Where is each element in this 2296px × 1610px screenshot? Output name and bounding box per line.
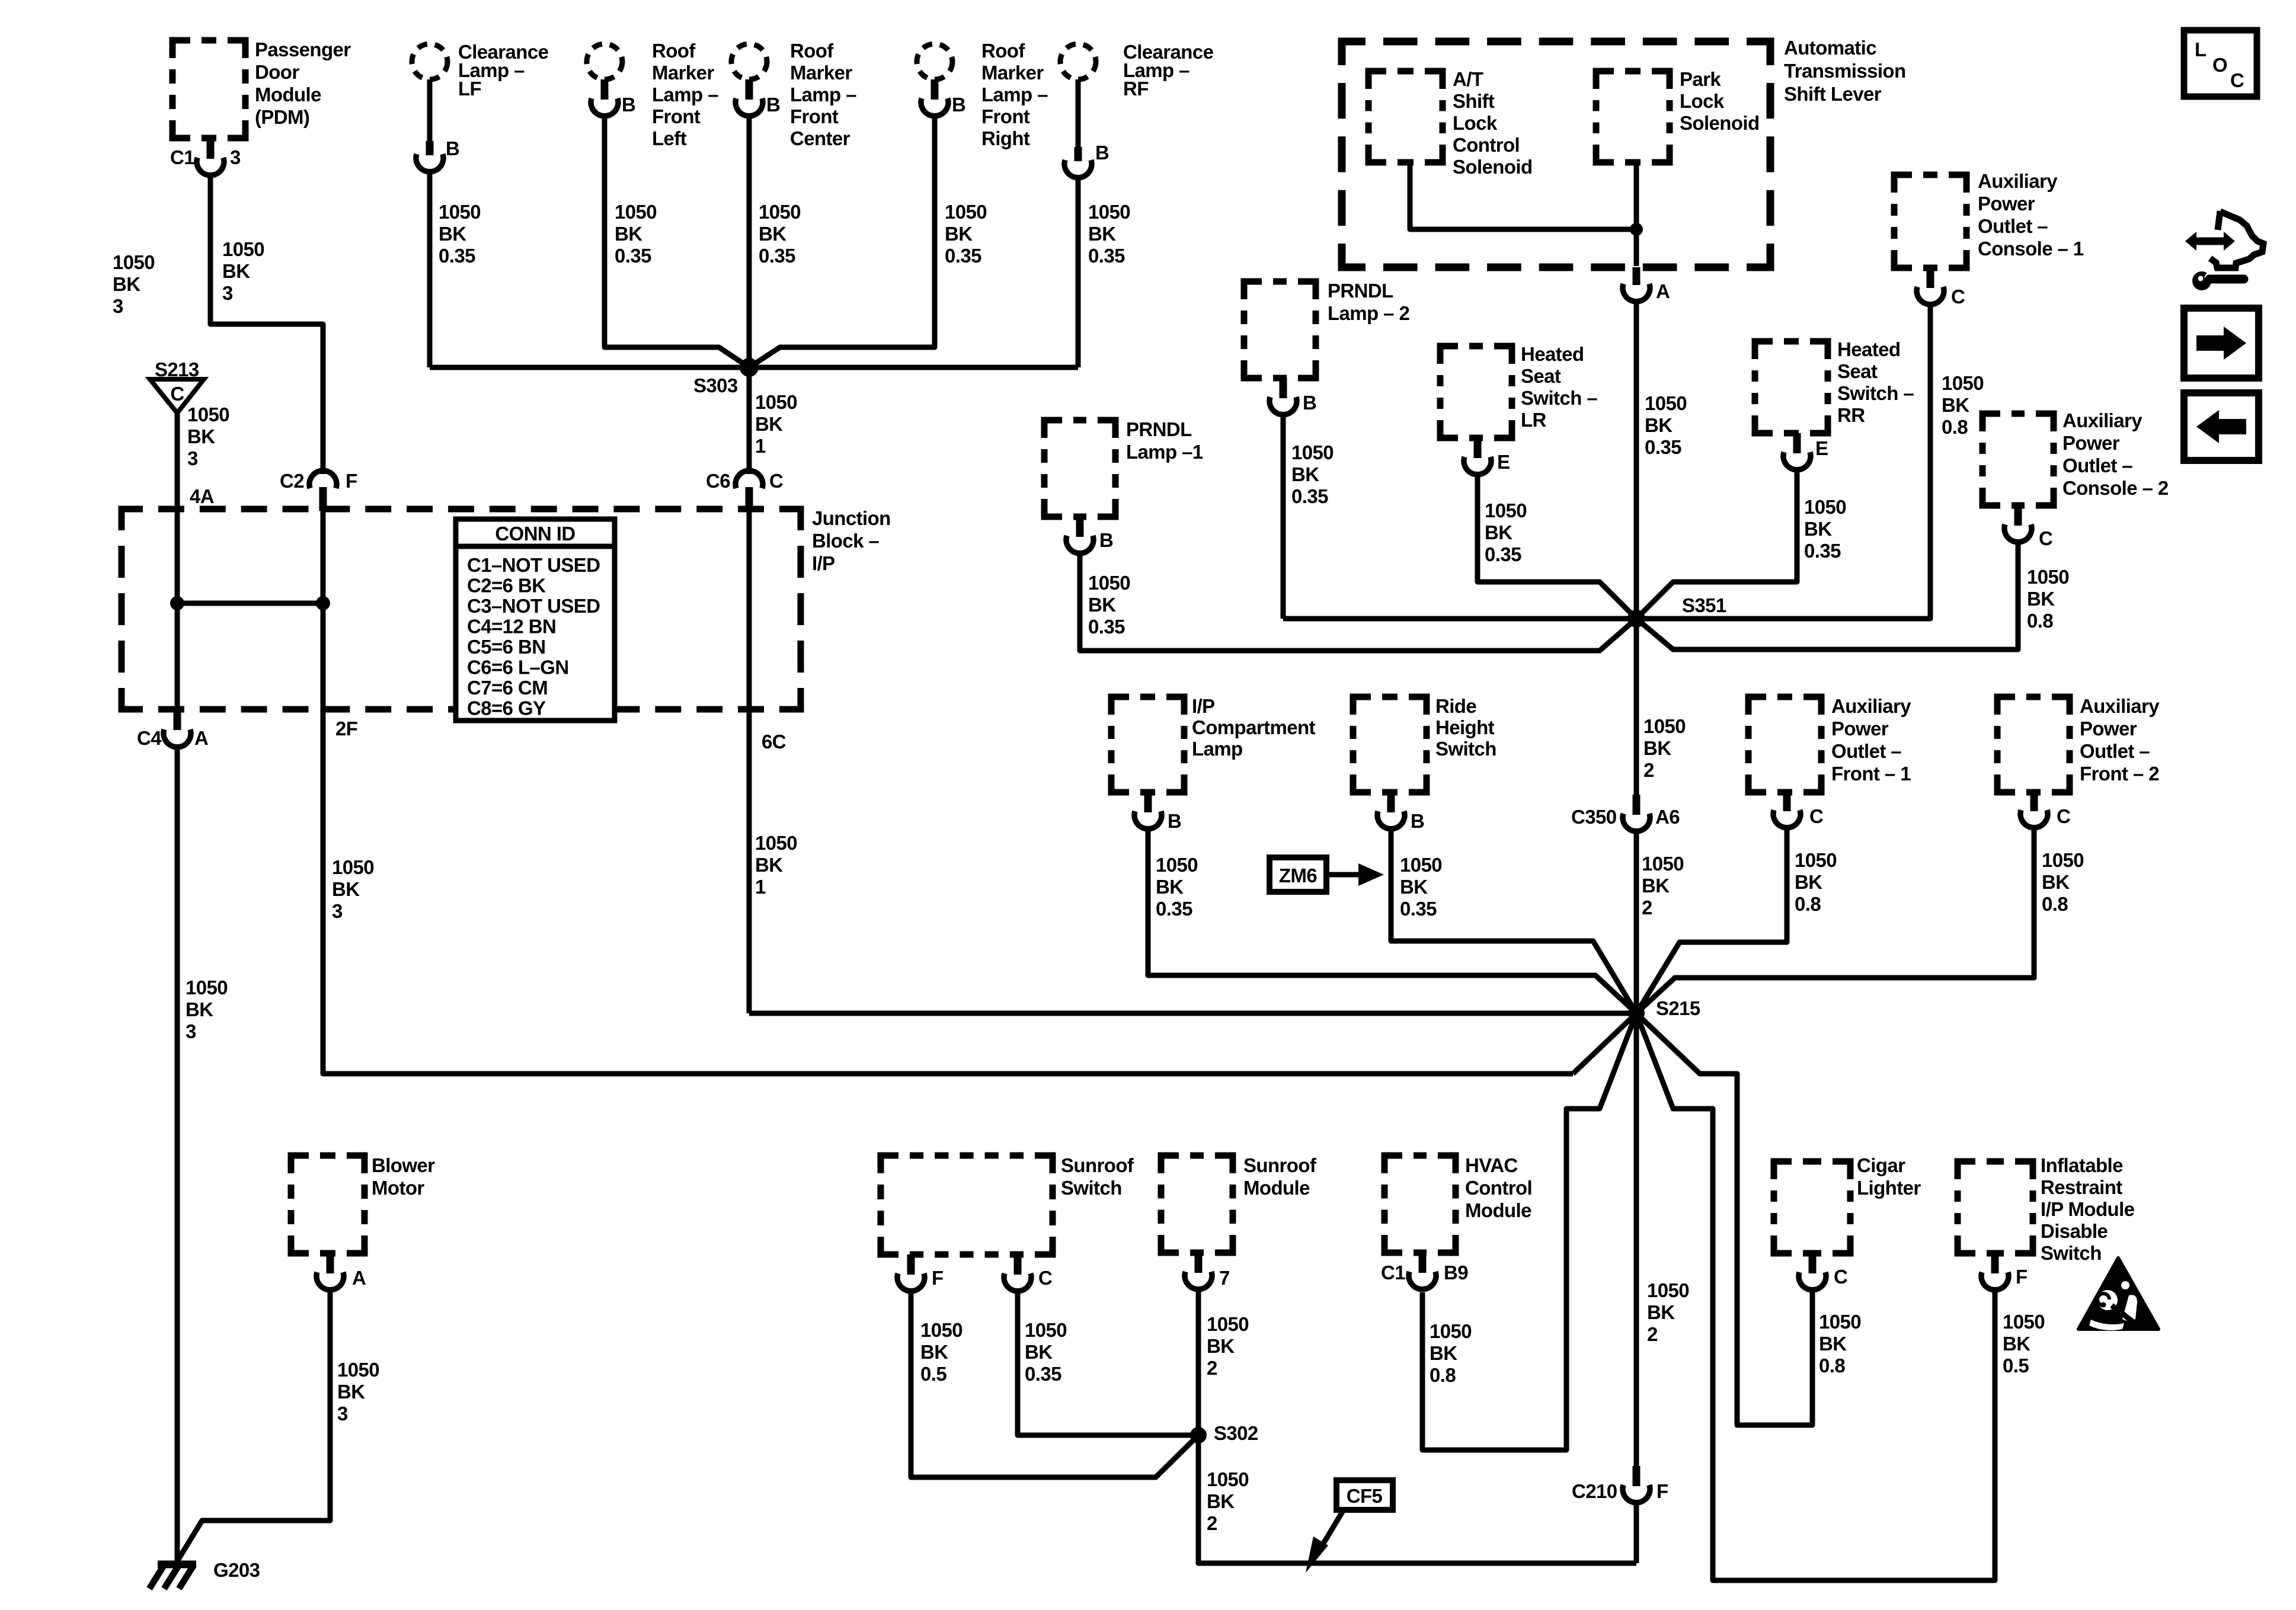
airbag warning triangle icon — [2078, 1258, 2159, 1329]
wire: sunroof switch C to S302 — [1018, 1290, 1198, 1435]
connector B of Roof Marker Front Center — [746, 79, 753, 100]
svg-text:S351: S351 — [1682, 594, 1726, 616]
svg-text:F: F — [346, 470, 357, 492]
connector C1 pin 3 of PDM — [207, 138, 215, 159]
wire: shift lever A down to S351 — [1634, 300, 1639, 619]
connector B of Roof Marker Front Left — [601, 79, 609, 100]
svg-text:AuxiliaryPowerOutlet –Front –: AuxiliaryPowerOutlet –Front – 1 — [1831, 695, 1911, 785]
wire: I/P compartment lamp to S215 — [1148, 828, 1636, 1013]
component box: Sunroof Switch — [881, 1156, 1053, 1254]
wire: S303 bus — [430, 365, 1078, 370]
splice S302 dot — [1190, 1427, 1207, 1443]
svg-text:B: B — [446, 137, 459, 159]
wire: park lock solenoid down — [1634, 162, 1639, 266]
wire: S215 to HVAC branch — [1422, 1013, 1636, 1450]
svg-text:A6: A6 — [1655, 806, 1680, 828]
wire: A/T shift lock solenoid to junction — [1410, 162, 1636, 229]
wire: sunroof switch F to S302 — [911, 1290, 1198, 1477]
component: Clearance Lamp - LF (dashed circle) — [412, 44, 447, 79]
svg-text:4A: 4A — [190, 485, 214, 507]
connector C2 pin F on junction block — [309, 470, 337, 488]
svg-text:SunroofModule: SunroofModule — [1243, 1154, 1317, 1199]
svg-text:C210: C210 — [1572, 1480, 1617, 1502]
connector C of Aux Power Outlet Front 1 — [1783, 792, 1791, 811]
wire: LF connector down to S303 bus — [427, 171, 433, 367]
svg-text:C: C — [170, 383, 184, 405]
svg-text:C: C — [1834, 1266, 1847, 1288]
connector C of Aux Power Outlet Console 2 — [2014, 505, 2022, 526]
component box: Sunroof Module — [1161, 1156, 1233, 1253]
component box: Auxiliary Power Outlet - Console - 1 — [1894, 175, 1966, 268]
connector 7 of Sunroof Module — [1195, 1253, 1203, 1273]
svg-text:B: B — [1168, 810, 1181, 832]
svg-text:B: B — [1411, 810, 1424, 832]
icon: left arrow box — [2184, 393, 2259, 460]
svg-text:C1: C1 — [1381, 1262, 1405, 1283]
wire: ride height switch to S215 — [1391, 828, 1636, 1013]
component box: Junction Block - I/P — [121, 509, 801, 709]
component box: Park Lock Solenoid — [1596, 71, 1670, 162]
svg-text:C6: C6 — [706, 470, 730, 492]
wire: LF lamp to connector — [427, 79, 433, 142]
svg-text:AuxiliaryPowerOutlet –Front –: AuxiliaryPowerOutlet –Front – 2 — [2080, 695, 2160, 785]
svg-text:6C: 6C — [762, 731, 786, 753]
junction dot right — [316, 596, 330, 610]
svg-text:F: F — [932, 1267, 944, 1289]
connector C6 pin C on junction block — [736, 470, 763, 488]
svg-text:B: B — [1099, 529, 1113, 551]
connector E of Heated Seat Switch LR — [1474, 438, 1482, 458]
svg-text:CF5: CF5 — [1347, 1485, 1383, 1507]
component box: Cigar Lighter — [1774, 1161, 1850, 1253]
wire: S213 down through junction block to C4 — [175, 413, 180, 709]
wire: S215 down to C210 — [1634, 1013, 1639, 1466]
connector C of Aux Power Outlet Front 2 — [2030, 792, 2038, 811]
svg-text:O: O — [2212, 54, 2227, 76]
icon: LOC reference box — [2184, 30, 2257, 97]
component box: A/T Shift Lock Control Solenoid — [1368, 71, 1443, 162]
wire: S303 down to junction block C6 — [747, 375, 752, 474]
component box: Heated Seat Switch - LR — [1440, 346, 1512, 438]
wire: S302 down to bottom run — [1198, 1435, 1636, 1563]
svg-text:C4: C4 — [137, 727, 162, 749]
component box: Auxiliary Power Outlet - Console - 2 — [1982, 414, 2054, 505]
component box: PRNDL Lamp - 2 — [1244, 281, 1316, 378]
svg-text:F: F — [2016, 1266, 2028, 1288]
svg-text:C1: C1 — [170, 146, 194, 168]
component box: Inflatable Restraint I/P Module Disable Switch — [1958, 1161, 2033, 1253]
wire: S351 down to C350 — [1634, 619, 1639, 795]
svg-text:C2: C2 — [280, 470, 304, 492]
splice S215 dot — [1628, 1005, 1645, 1022]
component: Clearance Lamp - RF (dashed circle) — [1060, 44, 1096, 79]
wire: FC straight down to S303 — [747, 115, 752, 367]
connector B of Roof Marker Front Right — [931, 79, 939, 100]
connector C of Cigar Lighter — [1809, 1253, 1817, 1273]
reference box CF5 — [1336, 1480, 1393, 1510]
svg-text:C: C — [1809, 805, 1823, 827]
wire: PDM C1-3 to junction block C2 feed — [210, 174, 323, 474]
connector B of I/P Compartment Lamp — [1144, 792, 1152, 812]
svg-text:G203: G203 — [213, 1559, 260, 1581]
wire: C2 wire inside junction block down to 2F exit — [323, 511, 1573, 1074]
component box: Blower Motor — [291, 1156, 364, 1253]
svg-text:C: C — [2039, 527, 2052, 549]
arrow from CF5 to bottom wire — [1320, 1510, 1344, 1548]
svg-text:S215: S215 — [1656, 997, 1700, 1019]
connector A of Blower Motor — [327, 1253, 334, 1273]
connector F of Inflatable Restraint switch — [1991, 1253, 1999, 1273]
connector C210 pin F — [1633, 1466, 1641, 1486]
svg-text:A: A — [1656, 280, 1670, 302]
splice S351 dot — [1627, 610, 1645, 628]
connector A below shift lever box — [1633, 267, 1641, 285]
connector C350 pin A6 — [1633, 795, 1641, 815]
wire: console outlet 2 down then left to S351 — [1636, 541, 2018, 649]
icon: vehicle wiring glyph with double arrow and wrench — [2196, 238, 2224, 245]
svg-text:C: C — [2230, 69, 2244, 91]
svg-text:C: C — [2057, 805, 2070, 827]
junction dot in shift lever box — [1630, 223, 1643, 236]
connector C4 pin A below junction block — [174, 709, 181, 730]
svg-text:C: C — [1038, 1267, 1052, 1289]
wire: C210 down to bottom run — [1634, 1502, 1639, 1563]
ground symbol G203 — [158, 1561, 196, 1569]
wire: heated seat RR to S351 — [1636, 469, 1797, 619]
component box: Automatic Transmission Shift Lever — [1342, 41, 1770, 267]
wire: C6 wire inside junction block down to 6C exit — [747, 511, 752, 1013]
wire: S215 to cigar lighter branch — [1636, 1013, 1812, 1425]
svg-text:A: A — [194, 727, 208, 749]
component box: Passenger Door Module (PDM) — [172, 40, 245, 138]
svg-text:A: A — [352, 1267, 366, 1289]
wire: console outlet 1 down then left to S351 — [1283, 303, 1930, 619]
connector B of PRNDL Lamp 2 — [1280, 378, 1287, 398]
wire: PRNDL lamp 1 to S351 — [1080, 552, 1636, 651]
svg-text:CONN ID: CONN ID — [495, 523, 575, 545]
svg-text:C: C — [1951, 286, 1965, 308]
wire: FR down and into S303 — [749, 115, 935, 367]
splice S213 triangle symbol — [150, 379, 204, 413]
connector B of PRNDL Lamp 1 — [1076, 517, 1084, 537]
svg-text:3: 3 — [230, 146, 241, 168]
wire: heated seat LR to S351 — [1478, 473, 1636, 619]
svg-text:B: B — [622, 94, 635, 116]
svg-text:E: E — [1815, 437, 1828, 459]
wire: FL down and into S303 — [605, 115, 749, 367]
wire: junction block 6C to S215 — [749, 1011, 1636, 1016]
svg-text:C: C — [769, 470, 783, 492]
component: Roof Marker Lamp - Front Left (dashed circle) — [587, 44, 622, 79]
connector E of Heated Seat Switch RR — [1793, 433, 1801, 453]
svg-text:S302: S302 — [1214, 1422, 1258, 1444]
wire: RF lamp to connector — [1076, 79, 1081, 148]
wire: C350 down to S215 — [1634, 830, 1639, 1013]
component box: Auxiliary Power Outlet - Front - 2 — [1997, 697, 2070, 792]
svg-text:F: F — [1657, 1480, 1668, 1502]
connector B of Clearance Lamp LF — [426, 141, 434, 155]
wire: RF connector down to S303 bus — [1076, 177, 1081, 367]
wire: blower motor to ground G203 — [178, 1289, 330, 1560]
component: Roof Marker Lamp - Front Center (dashed circle) — [731, 44, 767, 79]
component box: Heated Seat Switch - RR — [1755, 341, 1828, 433]
wire: junction block internal link — [177, 601, 323, 606]
svg-text:B: B — [952, 94, 965, 116]
svg-text:B: B — [1095, 142, 1109, 164]
connector C of Aux Power Outlet Console 1 — [1927, 268, 1934, 288]
wire: C4-A down to ground G203 — [175, 746, 180, 1562]
CONN ID table — [456, 519, 615, 721]
wire: sunroof module down to S302 — [1196, 1288, 1201, 1435]
connector F of Sunroof Switch — [907, 1254, 915, 1275]
connector C of Sunroof Switch — [1014, 1254, 1022, 1275]
component box: Auxiliary Power Outlet - Front - 1 — [1748, 697, 1821, 792]
component box: PRNDL Lamp - 1 — [1044, 420, 1115, 517]
wire: junction block 2F to S215 — [1573, 1013, 1636, 1074]
wire: front outlet 2 down then to S215 — [1636, 827, 2034, 1013]
svg-text:C350: C350 — [1571, 806, 1617, 828]
reference box ZM6 — [1269, 857, 1326, 892]
svg-text:B9: B9 — [1444, 1262, 1468, 1283]
component box: I/P Compartment Lamp — [1111, 697, 1184, 792]
svg-text:L: L — [2195, 39, 2207, 60]
svg-text:E: E — [1497, 451, 1510, 473]
icon: right arrow box — [2184, 308, 2259, 378]
splice S303 dot — [740, 358, 759, 377]
wire: front outlet 1 down then to S215 — [1636, 827, 1787, 1013]
connector B of Clearance Lamp RF — [1075, 147, 1082, 161]
junction dot left — [170, 596, 184, 610]
wire: PRNDL lamp 2 down to S351 level — [1281, 414, 1286, 619]
svg-text:7: 7 — [1219, 1267, 1230, 1289]
component: Roof Marker Lamp - Front Right (dashed circle) — [917, 44, 952, 79]
arrow from ZM6 to ride height wire — [1326, 872, 1360, 878]
svg-text:B: B — [766, 94, 780, 116]
connector C1 pin B9 of HVAC Control Module — [1419, 1253, 1427, 1273]
component box: Ride Height Switch — [1353, 697, 1427, 792]
connector B of Ride Height Switch — [1387, 792, 1395, 812]
svg-text:2F: 2F — [335, 718, 357, 740]
svg-text:PRNDLLamp –1: PRNDLLamp –1 — [1126, 418, 1203, 463]
svg-text:B: B — [1303, 392, 1316, 414]
component box: HVAC Control Module — [1384, 1156, 1456, 1253]
svg-text:ZM6: ZM6 — [1279, 865, 1317, 886]
wire: S215 to inflatable restraint branch — [1636, 1013, 1995, 1580]
svg-text:S303: S303 — [693, 375, 738, 396]
